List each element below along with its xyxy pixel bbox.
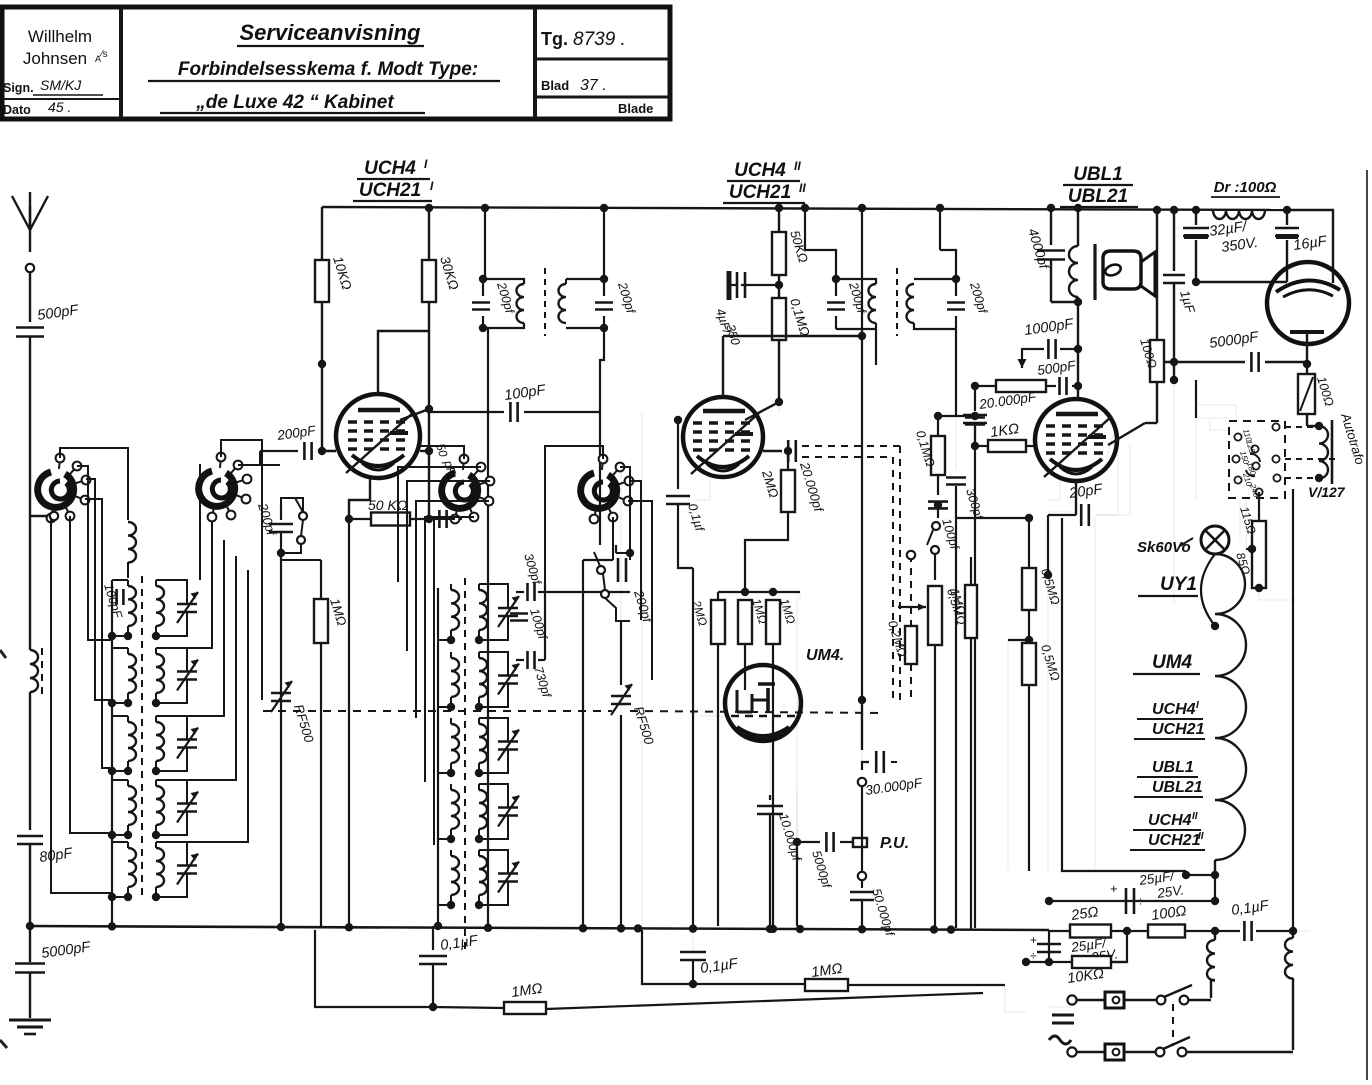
capacitor 10.000pf [769, 741, 771, 795]
IF can C cap [835, 279, 837, 296]
wire 10K to grid row [321, 364, 323, 451]
svg-text:Tg.: Tg. [541, 29, 568, 49]
autotrafo coil [1315, 422, 1323, 430]
resistor 10K ohm [321, 207, 323, 260]
bank2 left bus [437, 588, 439, 926]
wire 2M mid down [796, 592, 798, 842]
svg-text:UBL21: UBL21 [1068, 186, 1128, 207]
bank2 row5 trimmer [498, 872, 518, 875]
svg-text:Willhelm: Willhelm [28, 27, 92, 46]
ground [9, 1019, 51, 1022]
resistor 10K ohm bottom [1072, 956, 1111, 968]
wire can B bottom down [600, 328, 604, 412]
wire bus to can D [939, 208, 941, 250]
wire S1 contacts nest [77, 466, 112, 640]
IF can B coil [559, 284, 567, 323]
title block frame [2, 7, 670, 119]
capacitor 100pF bank1 [115, 589, 118, 605]
bank2 row2 left coil [451, 658, 459, 697]
wire S1 to antenna bus [30, 515, 48, 517]
magic eye UM4 [725, 665, 801, 741]
wave switch bank2 [597, 566, 605, 574]
bank1 row3 left coil [128, 722, 136, 761]
svg-text:P.U.: P.U. [880, 835, 909, 852]
bank1 row2 trimmer [177, 670, 197, 673]
speaker [1103, 251, 1141, 289]
mains plug lower [1067, 1047, 1076, 1056]
bank1 row5 rails [112, 841, 128, 843]
svg-text:Dr :100Ω: Dr :100Ω [1214, 179, 1277, 196]
wire 200pF down to bus [280, 553, 282, 712]
capacitor 1000pF [1060, 348, 1078, 350]
capacitor 4000pf [1050, 208, 1052, 245]
resistor 0.1M ohm det [934, 412, 942, 420]
bank1 right nest from S2 [199, 464, 201, 580]
wire 100pF down to band switch [599, 412, 601, 545]
svg-text:UM4.: UM4. [806, 647, 844, 664]
resistor 30K ohm [428, 208, 430, 260]
svg-text:UCH21: UCH21 [729, 182, 791, 203]
bank1 row5 trimmer [177, 864, 197, 867]
wire lamp arc [1201, 554, 1215, 626]
bank1 row4 left coil [128, 786, 136, 825]
wire tube1 right grid exit [420, 450, 429, 452]
antenna coil [30, 650, 38, 692]
mains switch dashed link [1172, 1004, 1174, 1046]
capacitor 200pF wave sw [280, 505, 282, 520]
wire selector to lamp column [1239, 498, 1241, 540]
rotary switch S3 [442, 473, 478, 508]
wire grid row to 200pF [322, 450, 336, 452]
tube U1 UCH4I [336, 394, 420, 478]
coil bank1 dashed core [141, 576, 143, 900]
wire grid2 diagonal [400, 409, 429, 420]
wave change switch bank1 [299, 512, 307, 520]
capacitor 32uF 350V [1195, 210, 1197, 225]
resistor 0.5M ohm a [1022, 568, 1036, 610]
capacitor 100pf det [934, 501, 942, 509]
wire bus to can A [484, 208, 486, 279]
svg-text:Johnsen: Johnsen [23, 49, 87, 68]
capacitor 0.1uF mid [677, 420, 679, 489]
svg-text:UCH21: UCH21 [359, 180, 421, 201]
bank2 row4 left coil [451, 790, 459, 829]
capacitor 50.000pf [858, 872, 866, 880]
capacitor 200pF bank2 wave sw [615, 545, 617, 553]
potentiometer [996, 380, 1046, 392]
wire bank2 switch to bus [582, 560, 584, 926]
wire ground bus [27, 926, 1049, 930]
transformer core [1093, 244, 1096, 300]
capacitor 100pF coupling [429, 411, 504, 413]
bank1 row1 right coil [156, 586, 164, 626]
bank1 row3 right coil [156, 722, 164, 761]
wire can D bottom to detector [955, 329, 957, 416]
heater dropper coil2 [1292, 931, 1294, 938]
IF can A coil [517, 284, 525, 323]
svg-text:V/127: V/127 [1308, 484, 1346, 500]
bank2 row4 right coil [479, 790, 487, 829]
svg-text:II: II [799, 181, 806, 195]
svg-text:UY1: UY1 [1160, 574, 1197, 595]
wire cathode net [1025, 514, 1033, 522]
bank2 row5 rails [447, 901, 455, 909]
svg-text:Blad: Blad [541, 78, 569, 93]
resistor 100 ohm rheostat [1306, 364, 1308, 374]
wire anode to transformer [1077, 302, 1079, 349]
wire t3 grid stem [1077, 349, 1079, 386]
capacitor 25uF 25V no2 [1048, 931, 1050, 962]
trimmer RF500 no1 [271, 692, 291, 695]
bank1 row4 rails [112, 779, 128, 781]
wire 20pF down right [1047, 575, 1049, 871]
svg-text:II: II [1192, 811, 1198, 822]
capacitor 80pF [17, 835, 43, 838]
voltage selector dashed box [1229, 421, 1285, 498]
dashed pair to right [802, 445, 900, 447]
capacitor 200pF grid1 [303, 442, 306, 460]
wire heater chain bottom [1214, 860, 1216, 875]
svg-text:+: + [1110, 881, 1118, 896]
bank2 row2 rails [447, 703, 455, 711]
tube U2 UCH4II [683, 397, 763, 477]
bank2 row5 left coil [451, 856, 459, 895]
bank1 left bus [111, 580, 113, 926]
wire top HT bus [322, 207, 1287, 210]
bank2 row2 trimmer [498, 674, 518, 677]
svg-text:II: II [794, 159, 801, 173]
capacitor 500pF t3 [1058, 377, 1061, 395]
capacitor 50pF [429, 518, 434, 520]
bank2 row1 right coil [479, 590, 487, 630]
capacitor 5000pf PU [793, 838, 801, 846]
wire hum rail [1026, 961, 1127, 963]
wire bottom rail 2 [642, 930, 693, 984]
capacitor 20pF [1075, 481, 1077, 500]
svg-text:UCH21: UCH21 [1152, 721, 1205, 738]
wire t3 grid3 right exit [1106, 423, 1117, 458]
mains switch lower [1156, 1048, 1165, 1057]
bank1 row5 left coil [128, 848, 136, 887]
svg-text:UCH4: UCH4 [1148, 812, 1192, 829]
svg-text:SM/KJ: SM/KJ [40, 77, 82, 93]
bank1 row3 trimmer [177, 738, 197, 741]
svg-text:II: II [1198, 831, 1204, 842]
switch det [937, 509, 939, 518]
capacitor 730pf bank2 row2 [516, 659, 524, 661]
bank2 row1 trimmer [498, 607, 518, 610]
capacitor 0.1uF bottom2 [692, 930, 694, 950]
wire anode top [378, 331, 429, 394]
resistor 1M ohm bank1 [320, 560, 322, 599]
bank2 row3 rails [447, 769, 455, 777]
svg-text:UBL21: UBL21 [1152, 779, 1203, 796]
svg-text:UCH4: UCH4 [734, 160, 786, 181]
resistor 50K ohm tube1 [371, 513, 410, 526]
wire 50.000 left [861, 208, 863, 336]
bank1 row2 left coil [128, 654, 136, 693]
IF separator dashed 2 [896, 268, 898, 336]
bank2 row2 right coil [479, 658, 487, 697]
rotary switch S1 [38, 472, 74, 507]
resistor 0.5M ohm det [928, 586, 942, 645]
wire eye filament from corner [1332, 264, 1334, 283]
svg-text:Sk60Vo: Sk60Vo [1137, 539, 1191, 556]
svg-text:„de Luxe 42 “ Kabinet: „de Luxe 42 “ Kabinet [195, 92, 394, 113]
selector dashed links [1285, 426, 1313, 428]
wire 20.000pF det top [971, 412, 979, 420]
wire S3 contact nest [398, 467, 481, 582]
bank1 row5 right coil [156, 848, 164, 887]
capacitor 30.000pF [861, 700, 863, 750]
bank2 row4 trimmer [498, 806, 518, 809]
capacitor 1uF [1173, 210, 1175, 271]
mains plug upper [1105, 992, 1124, 1008]
bank1 row1 left coil [128, 586, 136, 626]
capacitor 16uF [1286, 210, 1288, 225]
wire long vertical a [641, 412, 643, 930]
wire S3 feed [420, 446, 464, 459]
bank1 row1 trimmer [177, 603, 197, 606]
wire t3 cathode [1048, 478, 1060, 500]
choke Dr 100ohm [1213, 210, 1265, 219]
svg-text:UCH4: UCH4 [364, 158, 416, 179]
antenna [29, 206, 31, 252]
antenna primary coil bank1 [128, 522, 136, 563]
output transformer primary [1077, 210, 1079, 246]
svg-text:+: + [1030, 933, 1037, 947]
wire can A bottom down [487, 328, 489, 926]
bank1 row4 trimmer [177, 802, 197, 805]
wire right top corner down [1287, 210, 1333, 264]
wire 25uF rail [1049, 900, 1215, 902]
PU terminal [853, 838, 867, 847]
bank1 row2 right coil [156, 654, 164, 693]
wire bus to can B [603, 208, 605, 279]
wire box left feeds [1196, 405, 1236, 421]
mains switch upper [1157, 996, 1166, 1005]
capacitor 4uF 350 decouple [741, 284, 779, 286]
wire S1 top feed [60, 448, 128, 520]
svg-text:÷: ÷ [1030, 949, 1037, 963]
bank2 row3 right coil [479, 724, 487, 763]
capacitor 500pF antenna [16, 326, 44, 329]
wire tube2 cathode down [693, 473, 710, 500]
wire tube list box [1062, 518, 1186, 871]
IF can D coil [907, 284, 914, 323]
svg-text:÷: ÷ [1137, 894, 1144, 909]
svg-text:UBL1: UBL1 [1073, 164, 1123, 185]
volume pot arrow [1018, 359, 1027, 368]
resistor 0.5M ohm b [1022, 643, 1036, 685]
wire grid left 600 [599, 450, 601, 545]
resistor 100 ohm heater [1148, 925, 1185, 938]
svg-text:45 .: 45 . [48, 99, 71, 115]
wire 50K left down to bus [348, 519, 350, 926]
IF can C coil [869, 284, 877, 323]
bank2 row3 left coil [451, 724, 459, 763]
rotary switch S4 [581, 473, 617, 508]
wire eye left [700, 715, 725, 717]
bank2 row1 left coil [451, 590, 459, 630]
resistor 1M ohm right [970, 557, 972, 585]
rectifier UY1 envelope [1267, 262, 1349, 344]
wire 100 ohm drop [1156, 210, 1158, 340]
resistor 1M ohm rail2 [805, 979, 848, 991]
dashed core antenna coil [41, 648, 43, 696]
three grid resistors UM4 [744, 570, 746, 592]
wire can C bottom [875, 329, 877, 365]
capacitor 0.1uF right [1243, 921, 1246, 941]
wire S4 nest [620, 467, 630, 560]
IF separator dashed [544, 268, 546, 336]
bank1 row2 rails [112, 647, 128, 649]
wire bus to can C [804, 208, 806, 250]
capacitor 5000pF to ground [29, 926, 31, 962]
mains symbol [1049, 1006, 1071, 1008]
ganging dashed line [263, 710, 612, 712]
svg-text:Serviceanvisning: Serviceanvisning [240, 20, 422, 45]
bank2 row5 right coil [479, 856, 487, 895]
coil bank2 dashed core [464, 578, 466, 952]
wire AVC line [315, 926, 433, 1007]
tube U3 UBL1 [1035, 399, 1117, 481]
svg-text:37 .: 37 . [580, 77, 607, 94]
resistor 115/85 ohm tapped [1258, 492, 1260, 520]
resistor 2M ohm tube2 grid [787, 451, 789, 470]
capacitor 25uF 25V no1 [1125, 888, 1128, 914]
capacitor 0.1uF bottom1 [432, 926, 434, 950]
bank1 row4 right coil [156, 786, 164, 825]
svg-text:I: I [1196, 700, 1199, 711]
resistor 0.1M ohm tube2 [772, 298, 786, 340]
svg-text:Sign.: Sign. [3, 81, 34, 95]
lamp Sk60V [1201, 526, 1229, 554]
svg-text:UCH21: UCH21 [1148, 832, 1201, 849]
IF can A cap 200pf [482, 279, 484, 296]
svg-text:UCH4: UCH4 [1152, 701, 1196, 718]
rotary switch S2 [199, 471, 235, 506]
arrow into 0.5M [898, 606, 926, 608]
bank2 row3 trimmer [498, 740, 518, 743]
antenna terminal [26, 264, 34, 272]
wire tube2 grid diagonal exit [745, 402, 779, 420]
trimmer RF500 no2 [620, 621, 622, 685]
svg-text:8739 .: 8739 . [573, 29, 626, 50]
wire S4 feed [545, 446, 603, 582]
svg-text:Blade: Blade [618, 101, 653, 116]
bank2 row1 rails [447, 636, 455, 644]
bank1 row1 rails [112, 579, 128, 581]
capacitor 100pf bank2 [510, 612, 528, 615]
wire trafo bottom to 25uF rail [1318, 478, 1320, 484]
wire tube2 anode top [722, 336, 724, 397]
capacitor 300pf bank2 row1 [516, 591, 524, 593]
heater chain scallops [1215, 554, 1246, 860]
IF can B cap 200pf [595, 301, 613, 304]
resistor 1M ohm AVC [504, 1002, 546, 1014]
IF can D cap [947, 301, 965, 304]
resistor 50K ohm tube2 [778, 208, 780, 232]
page border right [1366, 170, 1368, 1080]
wire tube1 cathode [349, 478, 370, 519]
capacitor 20.000pF coupling [784, 447, 792, 455]
heater dropper coil1 [1214, 931, 1216, 940]
svg-text:Forbindelsesskema f. Modt Type: Forbindelsesskema f. Modt Type: [178, 59, 478, 80]
node antenna ground bus [26, 922, 34, 930]
selector contacts [1234, 433, 1241, 440]
resistor 0.2M ohm [910, 555, 912, 626]
bank2 row4 rails [447, 835, 455, 843]
svg-text:UM4: UM4 [1152, 652, 1193, 673]
svg-text:Dato: Dato [3, 103, 31, 117]
wire S2 feeds [221, 440, 262, 700]
svg-text:UBL1: UBL1 [1152, 759, 1194, 776]
bank1 row3 rails [112, 715, 128, 717]
svg-text:50 KΩ: 50 KΩ [368, 497, 408, 513]
resistor 25 ohm [1070, 925, 1111, 938]
page edge marks [0, 650, 6, 658]
capacitor 300pf det [955, 416, 957, 470]
